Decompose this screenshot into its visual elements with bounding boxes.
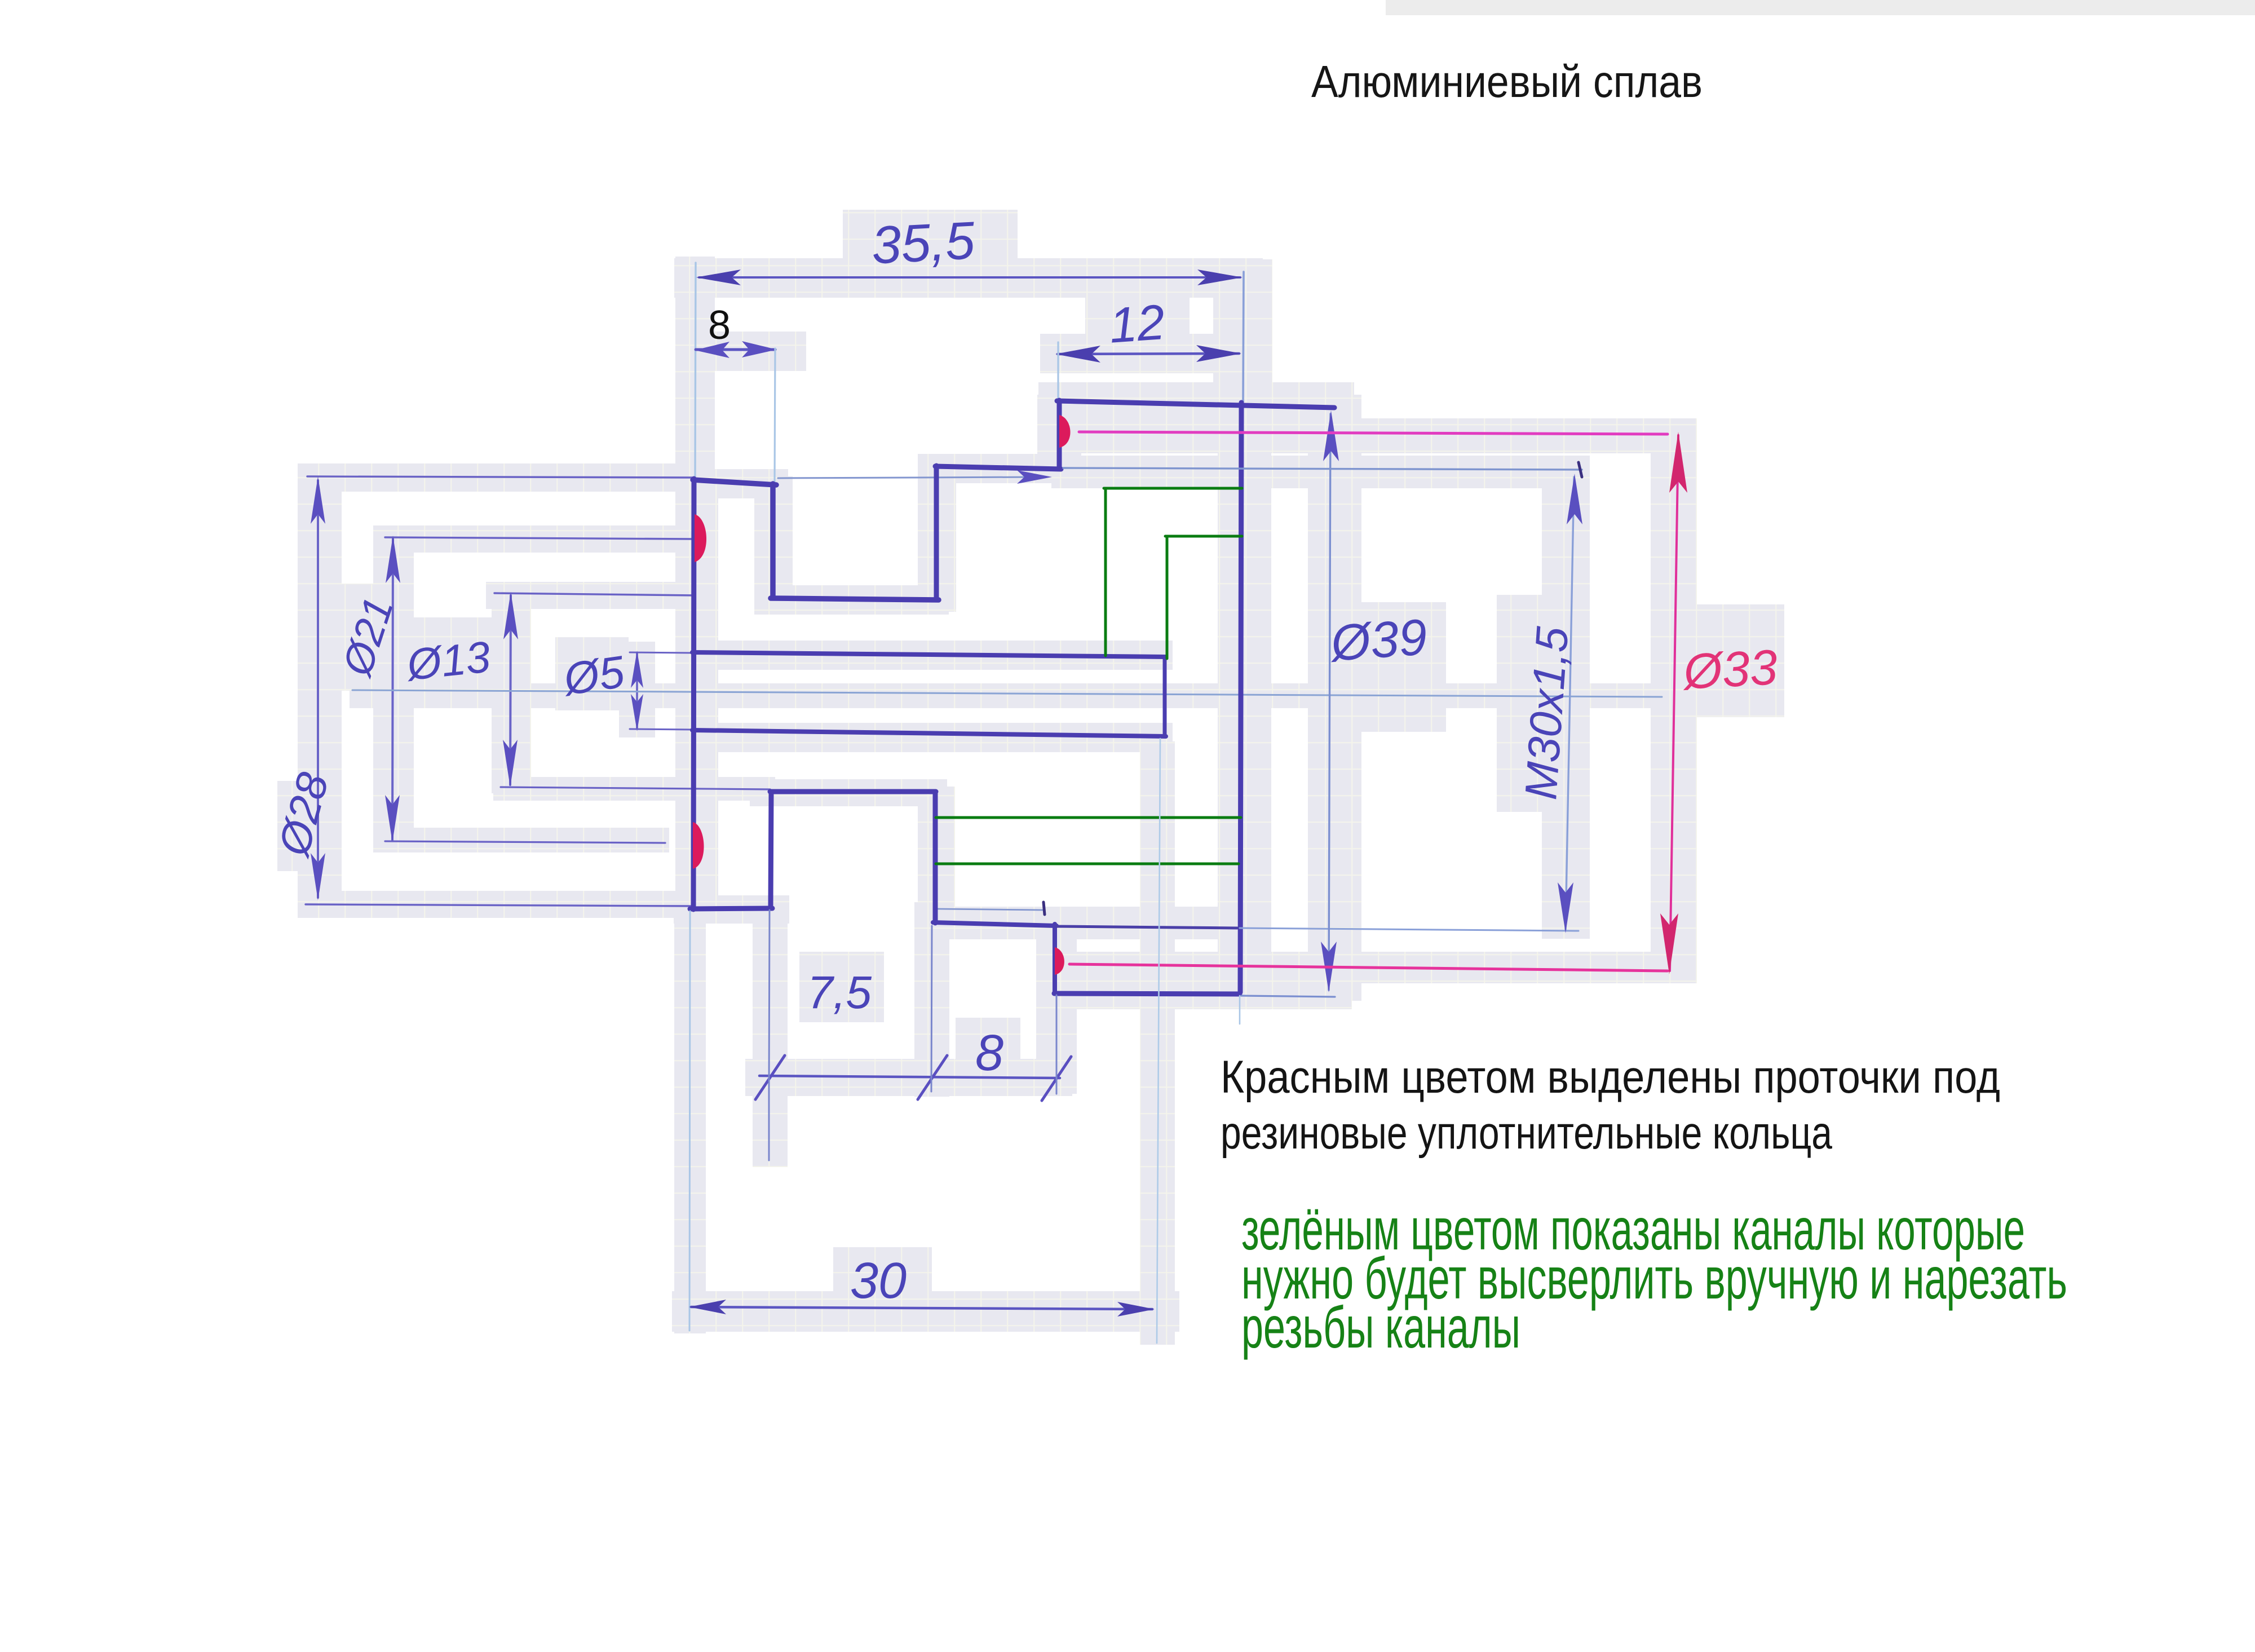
ext x1224 lower (689, 911, 690, 1331)
patch: O28 dim band (298, 463, 342, 915)
axis centerline (352, 690, 1662, 697)
top-right scanner strip (1386, 0, 2255, 15)
patch: right ext x2206 (1213, 259, 1272, 423)
part: column x1878 (1057, 400, 1062, 467)
channel green 2 horizontal (1165, 535, 1242, 538)
pink down arrowhead (1660, 913, 1678, 974)
part: bore bottom (692, 730, 1166, 736)
svg-text:Ø13: Ø13 (403, 631, 493, 690)
patch: O13 top band (486, 582, 697, 609)
patch: pink top band (1040, 418, 1697, 453)
o-ring groove red blob 1 (695, 514, 706, 562)
svg-text:8: 8 (708, 303, 731, 348)
dim 35,5 line (699, 276, 1240, 279)
patch: flange bottom band (674, 895, 789, 924)
patch: ext x1224 band (674, 913, 706, 1333)
part: groove wall x1871 (1053, 924, 1057, 993)
dim O21 bottom ext (385, 841, 665, 843)
patch: pink bottom band (1049, 952, 1697, 983)
dim O13 bottom ext (501, 787, 770, 789)
patch: top edge band (1038, 382, 1354, 422)
dim O28 bottom ext (306, 904, 691, 906)
part: step edge y828 (935, 466, 1061, 469)
patch: 12-dim band (1040, 334, 1260, 373)
patch: step band (918, 454, 1070, 483)
ext line x2206 (35,5) (1243, 272, 1244, 401)
dim O39 line (1329, 414, 1330, 990)
dim 12 right arrowhead (1196, 345, 1241, 362)
part: bottom right edge y1762 (1054, 993, 1240, 994)
small arrow at y848 (1017, 470, 1052, 484)
channel green 4 (936, 863, 1239, 865)
ext below bottom-right corner (1239, 996, 1241, 1024)
patch: O28 label (277, 781, 328, 871)
patch: pocket right wall band (918, 787, 955, 933)
dim M30 line (1566, 477, 1574, 930)
patch: O39 dim band (1308, 395, 1361, 1001)
ext line x1375 (8) (775, 348, 775, 483)
patch: O21 dim band (373, 525, 414, 848)
svg-text:резиновые уплотнительные кольц: резиновые уплотнительные кольца (1221, 1107, 1832, 1159)
patch: right face band (1218, 395, 1271, 1009)
patch: O21 bottom band (373, 828, 669, 852)
patch: 7,5 label (799, 952, 884, 1022)
dim O5 line (636, 653, 638, 729)
patch: ext x1365 band (753, 902, 788, 1167)
dim 8 left arrowhead (695, 342, 729, 358)
patch: notch bottom band (754, 585, 949, 615)
thin ref line y1613 (938, 909, 1042, 910)
dim 8 line (696, 348, 775, 351)
pink top line (1079, 432, 1668, 434)
part: notch right wall (934, 466, 939, 599)
ext line x1877 (12) (1057, 342, 1059, 398)
patch: 35,5 dim band (674, 258, 1263, 298)
patch: O13 dim band (492, 582, 531, 793)
patch: O13 bottom band (493, 777, 775, 801)
ext x1874 lower (1056, 995, 1058, 1094)
patch: O39 label (1325, 602, 1446, 732)
pink up arrowhead (1669, 432, 1687, 493)
channel green 2 vertical (1166, 536, 1169, 659)
patch: O33 label (1672, 604, 1784, 717)
tick at M30 top ext end (1578, 462, 1582, 477)
patch: flange top band (675, 469, 788, 498)
patch: left ext x1234 (675, 257, 715, 493)
dim 30 line (691, 1307, 1152, 1309)
paper patches (277, 0, 2255, 1345)
part: flange right lower wall (771, 792, 771, 908)
patch: O13 label (390, 617, 500, 699)
strokes (306, 263, 1687, 1343)
ext x2056 (1157, 739, 1160, 1343)
dim 30 right arrowhead (1117, 1302, 1155, 1317)
dim O5 bottom ext (630, 729, 692, 730)
part: pocket right wall (933, 792, 938, 923)
dim O39 bottom ext (1241, 996, 1335, 997)
svg-text:Ø33: Ø33 (1681, 639, 1779, 700)
thin ref line y848 to step (778, 477, 1044, 478)
dim O13 top ext (494, 593, 695, 595)
tick at x1874 (1042, 1057, 1071, 1101)
dim O28 top ext (307, 476, 694, 478)
dim O21 top ext (385, 537, 695, 539)
dim O28 up arrowhead (311, 476, 325, 524)
patch: bottom dim band (745, 1059, 1072, 1096)
bottom dim line 7,5 / 8 (759, 1076, 1060, 1078)
tick at y1613 end (1044, 902, 1045, 915)
patch: flange left band (675, 472, 718, 918)
svg-text:7,5: 7,5 (807, 967, 872, 1018)
tick at x1365 (755, 1055, 785, 1099)
patch: ext x1653 band (914, 902, 949, 1097)
dim O21 line (392, 539, 393, 840)
part: boss right wall (770, 484, 776, 597)
dim 12 line (1058, 354, 1239, 354)
o-ring groove red blob 3 (693, 822, 704, 869)
channel green 1 horizontal (1104, 487, 1242, 490)
patch: O5 dim band (619, 642, 655, 737)
part: bore top (692, 652, 1166, 657)
part: bottom step edge y1640 (933, 922, 1056, 926)
patch: notch right wall band (918, 454, 956, 612)
patch: 30 dim band (672, 1291, 1179, 1332)
svg-text:12: 12 (1107, 294, 1166, 354)
patch: M30 label (1497, 595, 1567, 812)
dim M30 down arrowhead (1558, 882, 1573, 933)
svg-text:8: 8 (975, 1025, 1003, 1081)
dim O28 line (317, 480, 319, 898)
dim O28 down arrowhead (311, 853, 325, 900)
channel green 3 (936, 816, 1241, 819)
svg-text:Красным цветом выделены проточ: Красным цветом выделены проточки под (1221, 1052, 2000, 1103)
part: right face x2201 (1240, 403, 1241, 992)
dim O5 up arrowhead (631, 651, 643, 688)
patch: axis band (350, 683, 1663, 708)
patch: column x1878 (1037, 395, 1081, 476)
dim 30 left arrowhead (689, 1300, 726, 1314)
dim M30 up arrowhead (1567, 474, 1582, 524)
patch: boss right wall band (754, 476, 793, 606)
ext x1653 lower (931, 926, 932, 1092)
patch: 30 label (833, 1247, 932, 1304)
pink O33 dim line (1670, 435, 1678, 971)
patch: O5 label (555, 637, 629, 710)
patch: M30 top ext band (1051, 456, 1590, 488)
dim O13 down arrowhead (503, 740, 518, 787)
patch: 8 bottom label (956, 1018, 1020, 1079)
dim O5 top ext (630, 652, 692, 653)
patch: bore bottom band (676, 723, 1173, 752)
patch: O28 bottom band (298, 891, 695, 918)
patch: 8-dim band (676, 332, 806, 371)
dim O13 up arrowhead (503, 592, 518, 639)
dim O5 down arrowhead (631, 694, 643, 731)
part: pocket top edge (770, 789, 936, 794)
patch: pocket top band (750, 779, 947, 806)
ext x1365 lower (769, 910, 770, 1160)
dim O39 down arrowhead (1321, 942, 1337, 992)
svg-text:35,5: 35,5 (870, 210, 976, 275)
part: bore right wall (1163, 657, 1167, 736)
dim M30 top ext (1063, 468, 1582, 470)
svg-text:Алюминиевый сплав: Алюминиевый сплав (1311, 56, 1703, 107)
pink bottom line (1069, 964, 1668, 971)
patch: groove wall bottom band (1036, 925, 1077, 1094)
part: thread root line y1645 (1056, 926, 1237, 928)
patch: 12 label (1085, 296, 1190, 352)
channel green 1 vertical (1104, 488, 1107, 656)
dim O13 line (510, 595, 511, 785)
dim 35,5 left arrowhead (696, 270, 741, 285)
svg-text:Ø39: Ø39 (1328, 609, 1429, 672)
patch: bottom step band (914, 907, 1247, 939)
patch: O21 label (337, 584, 396, 691)
patch: O28 top band (302, 463, 696, 492)
svg-text:резьбы каналы: резьбы каналы (1241, 1295, 1520, 1361)
part: flange top edge (693, 480, 776, 485)
tick at x1653 (918, 1055, 947, 1099)
part: notch bottom (771, 598, 939, 600)
o-ring groove red blob 4 (1055, 947, 1064, 975)
dim O21 down arrowhead (385, 795, 400, 842)
patch: ext x2056 band (1140, 741, 1175, 1345)
svg-text:Ø5: Ø5 (559, 646, 628, 704)
dim 8 right arrowhead (742, 341, 777, 357)
dim O39 up arrowhead (1323, 410, 1339, 461)
part: flange left face (693, 479, 694, 909)
dim 35,5 right arrowhead (1197, 270, 1243, 285)
patch: bore top band (676, 641, 1173, 670)
thin M30 bottom ext (1240, 928, 1578, 931)
part: top edge y712 (1057, 401, 1334, 408)
patch: O21 top band (378, 525, 699, 553)
part: flange bottom edge (690, 908, 772, 909)
patch: bottom edge band (1036, 980, 1352, 1009)
patch: 35,5 label (843, 210, 1018, 280)
svg-text:30: 30 (850, 1253, 907, 1309)
patch: M30 dim band (1542, 457, 1590, 939)
o-ring groove red blob 2 (1059, 415, 1071, 448)
dim O21 up arrowhead (386, 536, 400, 583)
patch: O33 pink dim band (1651, 420, 1697, 978)
dim 12 left arrowhead (1055, 346, 1100, 363)
ext line x1234 (35,5 / 8) (695, 263, 696, 478)
